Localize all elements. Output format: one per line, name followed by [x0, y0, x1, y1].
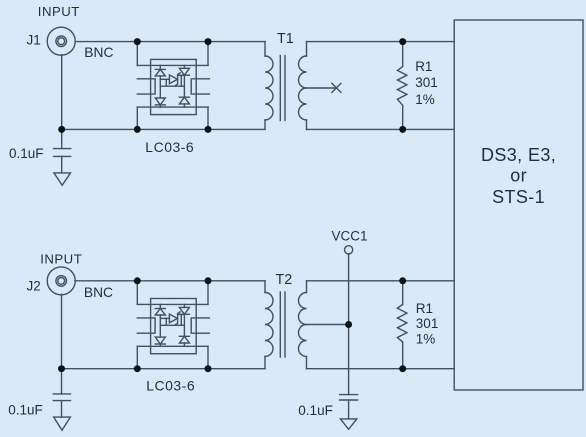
svg-text:0.1uF: 0.1uF [9, 146, 44, 161]
pin stub left U2 [137, 318, 155, 333]
wire right vertical top [207, 42, 209, 66]
wire upper horizontal [137, 64, 208, 66]
svg-text:J2: J2 [27, 278, 41, 293]
svg-text:INPUT: INPUT [38, 4, 80, 19]
diode D1 (left rail top, cathode up) [159, 65, 161, 69]
capacitor C2 lower lead [61, 401, 63, 418]
ground (VCC cap) [340, 419, 356, 429]
TVS diode D10 triangle [169, 314, 177, 323]
node: R1b bottom [399, 365, 406, 372]
LC03-6 U2 wires [136, 281, 138, 305]
ground (J2 side) [54, 417, 71, 430]
transformer T2 secondary lead bottom [306, 357, 308, 369]
node: R1 bottom [399, 126, 406, 133]
TVS diode D10 cathode wire [178, 314, 185, 316]
node: R1b top [399, 277, 406, 284]
transformer T2 secondary winding [299, 293, 307, 357]
node: bottom rail left dot [134, 126, 141, 133]
wire left vertical bottom [136, 107, 138, 129]
block text [481, 145, 556, 207]
svg-text:R1: R1 [415, 59, 432, 74]
transformer T1 primary lead top [264, 42, 266, 56]
wire bottom rail 2 [62, 368, 266, 370]
node: ch2 bottom rail left dot [134, 365, 141, 372]
diode D4 (right rail bottom, cathode up) [179, 96, 189, 98]
transformer T2 primary winding [265, 293, 273, 357]
transformer T1 primary lead bottom [264, 120, 266, 129]
connector J1 BNC [47, 27, 75, 55]
TVS diode D10 anode wire [160, 317, 169, 319]
wire right vertical bottom [207, 107, 209, 129]
diode D6 [159, 304, 161, 308]
T1 center tap wire [307, 87, 337, 89]
wire J1 to node A (top rail) [75, 41, 265, 43]
pin stub left (pins 1,8) [137, 79, 155, 94]
wire J2 to top rail [75, 280, 265, 282]
transformer T1 core [279, 56, 281, 121]
right rail mid [183, 75, 185, 97]
svg-text:T2: T2 [276, 272, 293, 288]
diode D7 [155, 337, 165, 344]
svg-text:BNC: BNC [84, 285, 113, 300]
resistor R1b top lead [402, 281, 404, 305]
transformer T2 secondary lead top [306, 281, 308, 293]
svg-text:1%: 1% [415, 92, 435, 107]
resistor R1 zigzag [397, 67, 407, 106]
diode D9 [179, 335, 189, 337]
T2 center tap wire [307, 324, 349, 326]
LC03-6 package box U2 [151, 299, 197, 354]
svg-text:301: 301 [415, 75, 438, 90]
node: bottom rail right dot [205, 126, 212, 133]
wire secondary bottom to block [307, 128, 455, 130]
TVS diode D10 cathode bar [175, 312, 180, 325]
TVS diode D5 anode wire [160, 78, 169, 80]
block DS3/E3/STS-1 [454, 20, 583, 390]
capacitor C1 0.1uF lead [61, 129, 63, 148]
node: ch2 bottom rail right dot [205, 365, 212, 372]
transformer T2 primary lead bottom [264, 357, 266, 369]
svg-text:1%: 1% [416, 332, 436, 347]
node: R1 top [399, 38, 406, 45]
svg-text:0.1uF: 0.1uF [8, 402, 43, 417]
capacitor C3 lower lead [348, 400, 350, 419]
capacitor C1 plates [54, 148, 71, 150]
resistor R1b bottom lead [402, 342, 404, 369]
ground (J1 side) [54, 173, 71, 185]
svg-text:BNC: BNC [84, 45, 113, 60]
TVS lower link [160, 85, 184, 87]
svg-text:STS-1: STS-1 [492, 187, 545, 207]
wire J1 down [61, 55, 63, 130]
VCC1 wire down [348, 254, 350, 395]
svg-text:DS3, E3,: DS3, E3, [481, 145, 556, 165]
pin stub right (pins 4,5) [191, 79, 209, 94]
no-connect X [332, 83, 341, 92]
svg-text:R1: R1 [416, 301, 433, 316]
node: J1 cap junction [58, 126, 65, 133]
LC03-6 package box U1 [151, 59, 197, 114]
TVS lower link U2 [160, 324, 184, 326]
TVS diode D5 cathode bar [175, 73, 180, 86]
capacitor C3 plates [340, 394, 358, 396]
wire secondary top to block [307, 41, 455, 43]
TVS diode D5 cathode wire [178, 74, 185, 76]
TVS diode D5 triangle [169, 75, 177, 84]
svg-text:0.1uF: 0.1uF [298, 403, 333, 418]
diode D3 (right rail top, cathode down) [183, 65, 185, 68]
node: J2 cap junction [58, 365, 65, 372]
svg-text:J1: J1 [27, 32, 41, 47]
wire secondary2 top to block [307, 280, 455, 282]
pin stub right U2 [191, 318, 209, 333]
capacitor C2 plates [53, 393, 70, 395]
svg-text:or: or [510, 166, 527, 186]
wire J2 down [61, 294, 63, 369]
svg-text:LC03-6: LC03-6 [146, 378, 195, 394]
capacitor C2 0.1uF lead [61, 369, 63, 394]
node: T2 center tap [345, 321, 352, 328]
transformer T1 secondary lead top [306, 42, 308, 56]
svg-text:INPUT: INPUT [40, 251, 82, 266]
connector J2 BNC [47, 267, 75, 295]
diode D2 (left rail bottom, cathode down) [155, 98, 165, 105]
LC03-6 U1 : wire left vertical top [136, 42, 138, 66]
transformer T1 primary winding [265, 56, 273, 120]
resistor R1b zigzag [397, 304, 407, 342]
node: top rail right dot [205, 38, 212, 45]
diode D8 [183, 304, 185, 307]
wire secondary2 bottom to block [307, 368, 455, 370]
wire bottom rail [62, 128, 265, 130]
capacitor C1 lower lead [61, 156, 63, 173]
wire lower horizontal [137, 106, 208, 108]
transformer T2 primary lead top [264, 281, 266, 293]
svg-text:T1: T1 [277, 31, 294, 47]
transformer T1 secondary lead bottom [306, 120, 308, 129]
transformer T1 secondary winding [299, 56, 307, 120]
resistor R1 top lead [402, 42, 404, 67]
node: top rail left dot [134, 38, 141, 45]
node: ch2 top rail right dot [205, 277, 212, 284]
left rail mid [159, 76, 161, 98]
transformer T2 core [279, 292, 281, 357]
svg-text:301: 301 [416, 316, 439, 331]
node: ch2 top rail left dot [134, 277, 141, 284]
svg-text:VCC1: VCC1 [332, 229, 368, 244]
resistor R1 bottom lead [402, 105, 404, 129]
VCC1 node circle [345, 246, 353, 254]
svg-text:LC03-6: LC03-6 [145, 139, 194, 155]
